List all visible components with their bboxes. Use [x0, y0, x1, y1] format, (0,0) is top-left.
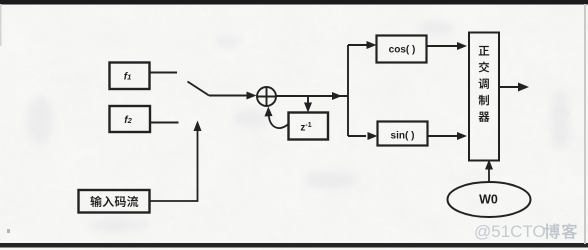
arrowhead up to switch — [194, 121, 202, 132]
arrowhead into sin — [368, 132, 378, 140]
arrowhead into cos — [367, 41, 377, 49]
svg-text:W0: W0 — [479, 193, 498, 207]
right edge faint line — [584, 4, 586, 244]
top border bar — [0, 0, 588, 5]
wire from f2 — [150, 122, 179, 124]
adder circle — [257, 87, 276, 106]
arrowhead W0 into modulator — [485, 160, 493, 170]
wire down to z-1 — [307, 96, 309, 104]
arrowhead on wire before branch — [332, 92, 342, 100]
modulator vertical label — [478, 46, 489, 122]
branch vertical line — [347, 45, 349, 136]
box f1 — [110, 63, 150, 90]
svg-text:f1: f1 — [124, 72, 132, 83]
modulator box — [469, 33, 499, 161]
arrowhead into adder — [247, 92, 257, 100]
svg-text:cos( ): cos( ) — [389, 45, 416, 56]
bottom border bar — [0, 243, 588, 248]
scan speck — [7, 229, 10, 233]
wire branch to sin — [348, 135, 366, 137]
wire switch to adder — [209, 95, 248, 97]
wire adder to branch — [276, 95, 348, 97]
output wire — [499, 86, 521, 88]
arrowhead into z-1 box — [304, 103, 312, 113]
arrowhead feedback into adder — [265, 107, 273, 117]
wire input box to switch — [150, 129, 198, 201]
feedback curve z-1 to adder — [269, 113, 289, 128]
wire W0 to modulator — [488, 168, 490, 182]
box sin — [378, 122, 428, 146]
wire from f1 — [150, 72, 178, 74]
arrowhead into modulator bottom — [457, 132, 467, 140]
svg-text:@51CTO: @51CTO — [474, 222, 546, 241]
input stream box — [79, 190, 150, 213]
W0 ellipse — [448, 182, 531, 217]
svg-text:f2: f2 — [124, 115, 132, 126]
wire cos to modulator — [427, 45, 459, 47]
output arrowhead — [518, 83, 529, 92]
svg-text:sin( ): sin( ) — [391, 131, 415, 142]
box cos — [377, 36, 427, 63]
box z-1 — [289, 113, 329, 140]
arrowhead into modulator top — [457, 42, 467, 50]
switch arm — [188, 82, 210, 96]
wire branch to cos — [348, 44, 368, 46]
wire sin to modulator — [427, 135, 458, 137]
watermark — [474, 222, 577, 241]
box f2 — [110, 106, 151, 132]
